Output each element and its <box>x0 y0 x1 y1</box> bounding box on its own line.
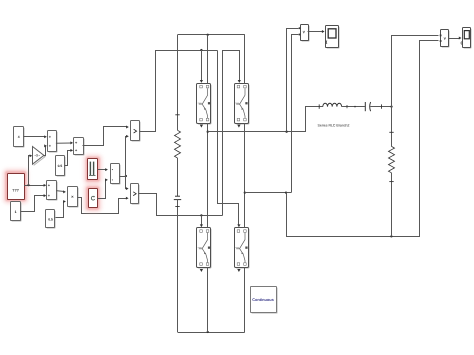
svg-text:1: 1 <box>15 210 17 214</box>
IGBT/Diode T2 <box>235 84 250 125</box>
wire T3 emitter to bottom bus <box>207 267 209 332</box>
wire G output to mux M input 2 <box>98 178 108 198</box>
wire gate drop to IGBT T3 gate <box>200 215 203 227</box>
wire T4 emitter to bottom bus <box>244 267 246 332</box>
powergui block Continuous <box>251 287 278 314</box>
scope1 <box>326 26 340 49</box>
sum block E <box>74 138 85 156</box>
wire gate line up to IGBT T2 gate <box>223 51 241 216</box>
sum block J <box>47 181 58 201</box>
wire gain C output to sum B input 2 <box>44 144 47 155</box>
wire sum B output to sum E input 1 <box>56 141 73 144</box>
source block F (carrier) selected red <box>83 154 102 184</box>
scope2 <box>461 28 472 49</box>
wire gate drop to IGBT T1 gate <box>200 50 203 83</box>
wire I output to sum J input 2 <box>21 194 47 211</box>
wire F output to mux M input 1 <box>98 168 108 171</box>
constant block H (???) selected red <box>3 169 29 204</box>
wire top bus corner to T2 collector <box>244 35 246 84</box>
load resistor branch (Series RLC Branch R) <box>389 36 439 237</box>
wire bus B down to bottom return bus <box>287 41 439 238</box>
wire D output to sum E input 2 <box>65 149 74 166</box>
wire voltage measurement VM1 + input tap <box>287 29 299 132</box>
IGBT/Diode T4 <box>235 228 250 269</box>
wire relop N output up to upper gate line <box>140 49 218 132</box>
svg-text:0.5: 0.5 <box>58 164 63 168</box>
T1 m-port arrow <box>200 125 203 128</box>
mux block M <box>111 164 121 185</box>
svg-text:0.5: 0.5 <box>48 217 53 221</box>
series RLC branch2 (L and C) <box>317 102 392 111</box>
constant block D (0.5) <box>56 156 66 177</box>
T2 m-port arrow <box>237 125 240 128</box>
constant block A (value 4) <box>14 127 25 148</box>
svg-text:Continuous: Continuous <box>252 297 274 302</box>
relational operator O (>) <box>131 184 140 205</box>
label Series RLC Branch2 <box>318 124 350 128</box>
output bus A from leg1 midpoint to RLC branch <box>208 107 318 133</box>
T3 m-port arrow <box>200 269 203 272</box>
wire mux M output junction to relational operators <box>120 135 129 190</box>
constant block I (1) <box>11 202 22 222</box>
wire K output to product L input 2 <box>56 200 66 217</box>
wire relop O output down to lower gate line <box>139 194 223 217</box>
wire leg 2 midpoint (T2 emitter to T4 collector) <box>244 123 246 228</box>
svg-text:4: 4 <box>18 135 20 139</box>
IGBT/Diode T3 <box>197 228 212 269</box>
svg-text:???: ??? <box>12 188 19 192</box>
wire product L output to relational operator O input 2 <box>78 197 129 214</box>
voltage measurement VM1 <box>299 25 310 42</box>
wire sum E output to relational operator N input 1 <box>83 126 129 146</box>
DC source branch (R-C series) <box>174 115 181 332</box>
bottom return bus <box>178 331 245 333</box>
IGBT/Diode T1 <box>197 84 212 125</box>
sum block B <box>48 131 58 153</box>
source block G (clock) selected red <box>84 184 102 212</box>
wire sum J output to product L input 1 <box>56 190 66 193</box>
constant block K (0.5) <box>46 210 56 229</box>
product block L <box>68 187 79 208</box>
wire A output to sum B input 1 <box>23 135 47 138</box>
wire leg 1 midpoint (T1 emitter to T3 collector) <box>207 123 209 228</box>
svg-text:Series RLC Branch2: Series RLC Branch2 <box>318 124 350 128</box>
wire top bus to T1 collector <box>207 35 209 83</box>
wire gate line down to IGBT T4 gate <box>218 51 241 228</box>
gain triangle C <box>33 147 46 166</box>
T4 m-port arrow <box>237 269 240 272</box>
wire junction up to gain C input <box>29 154 33 185</box>
top DC bus <box>178 34 245 36</box>
voltage measurement VM2 <box>440 30 450 48</box>
wire VM1 to scope1 <box>308 30 325 33</box>
wire H output to junction and sum J input 1 <box>24 184 46 187</box>
wire top bus corner to source branch <box>177 35 179 115</box>
relational operator N (>) <box>131 121 141 142</box>
wire VM2 to scope2 <box>449 37 462 40</box>
wire voltage measurement VM1 - input tap <box>292 35 299 193</box>
output bus B from leg2 midpoint <box>245 191 292 193</box>
